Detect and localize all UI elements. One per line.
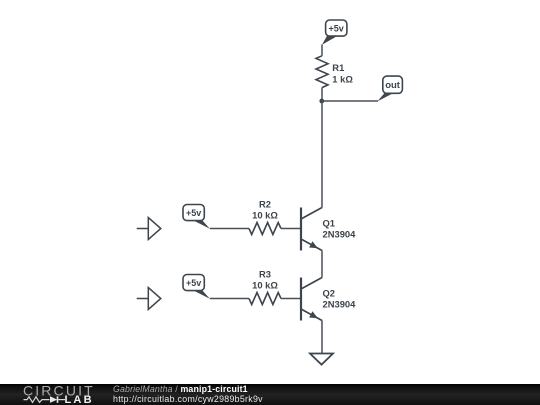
wire flag to R3 [210, 298, 249, 300]
svg-text:2N3904: 2N3904 [323, 229, 357, 240]
footer bar [0, 384, 540, 405]
wire R1 to node [321, 88, 323, 101]
wire flag to R2 [210, 228, 249, 230]
input arrow 2 [137, 288, 161, 310]
resistor R3 [249, 293, 281, 305]
svg-text:10 kΩ: 10 kΩ [252, 280, 278, 291]
wire Q1 emitter to Q2 collector [321, 251, 323, 278]
svg-text:+5v: +5v [186, 278, 201, 288]
svg-text:LAB: LAB [65, 394, 94, 405]
svg-text:2N3904: 2N3904 [323, 299, 357, 310]
svg-text:out: out [385, 80, 401, 91]
input arrow 1 [137, 218, 161, 240]
wire Q2 emitter to ground [321, 321, 323, 354]
footer logo resistor squiggle [24, 397, 50, 403]
resistor R2 [249, 223, 281, 235]
svg-text:R3: R3 [259, 268, 271, 279]
wire R3 to Q2 base [281, 298, 301, 300]
wire node to Q1 collector [321, 101, 323, 208]
net flag +5v (V supply for R1) [322, 20, 347, 45]
net flag out [378, 76, 403, 101]
wire node to out flag [322, 100, 378, 102]
svg-text:GabrielMantha / manip1-circuit: GabrielMantha / manip1-circuit1 [113, 384, 248, 394]
svg-text:R1: R1 [332, 62, 344, 73]
svg-text:+5v: +5v [329, 24, 344, 34]
resistor R1 [316, 56, 328, 88]
ground [310, 354, 333, 365]
net flag +5v (input B) [183, 275, 210, 299]
svg-text:10 kΩ: 10 kΩ [252, 210, 278, 221]
footer logo diode arrow [50, 396, 57, 403]
svg-text:Q1: Q1 [323, 218, 336, 229]
wire R2 to Q1 base [281, 228, 301, 230]
svg-text:R2: R2 [259, 198, 271, 209]
svg-text:1 kΩ: 1 kΩ [332, 73, 353, 84]
wire flag to R1 [321, 45, 323, 56]
net flag +5v (input A) [183, 205, 210, 229]
node junction dot [319, 99, 324, 104]
svg-text:Q2: Q2 [323, 288, 336, 299]
transistor Q1 2N3904 [301, 208, 322, 251]
transistor Q2 2N3904 [301, 278, 322, 321]
svg-text:+5v: +5v [186, 208, 201, 218]
svg-text:http://circuitlab.com/cyw2989b: http://circuitlab.com/cyw2989b5rk9v [113, 394, 263, 404]
